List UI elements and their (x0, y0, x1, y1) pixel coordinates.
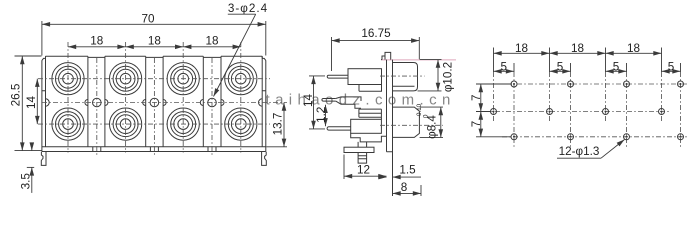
side view foot crossbar (344, 147, 374, 152)
pcb hole r1c1 (511, 81, 517, 87)
pcb hole r1c3 (624, 81, 630, 87)
dimension 12 (344, 155, 387, 180)
pcb centerlines (484, 72, 689, 148)
jack B4 row2 col4 (225, 108, 257, 140)
dimension phi10.2 (418, 60, 442, 91)
dimension phi8.4 (420, 107, 443, 137)
svg-text:18: 18 (148, 35, 161, 48)
dimension 13.7 (266, 103, 287, 147)
jack B2 row2 col2 (110, 108, 142, 140)
svg-text:18: 18 (205, 35, 218, 48)
pcb hole r2c3 (603, 109, 609, 115)
svg-text:14: 14 (25, 96, 38, 110)
svg-text:12: 12 (357, 164, 370, 177)
dimension 1.5 (381, 176, 422, 178)
centerlines front view (38, 42, 287, 157)
pink watermark rule (382, 59, 457, 61)
side view body steps C D E (359, 109, 382, 119)
dimension 3.5 (27, 143, 34, 193)
dimension 70 (42, 21, 266, 56)
side view row2 block F (351, 119, 382, 133)
svg-text:5: 5 (557, 60, 564, 73)
svg-text:14: 14 (302, 94, 315, 108)
side view barrel bottom row2 (393, 107, 420, 137)
svg-text:16.75: 16.75 (361, 27, 391, 40)
jack A4 row1 col4 (225, 63, 257, 95)
svg-text:5: 5 (668, 60, 675, 73)
front view right foot (262, 152, 267, 166)
pcb dimension 18 x3 (494, 52, 662, 54)
mounting hole H1 (93, 98, 102, 107)
pcb hole r2c4 (659, 109, 665, 115)
svg-text:1.5: 1.5 (399, 164, 416, 177)
svg-text:1.2: 1.2 (315, 107, 328, 123)
pcb extension lines (476, 48, 681, 137)
svg-text:18: 18 (90, 35, 103, 48)
svg-text:3-φ2.4: 3-φ2.4 (228, 2, 268, 15)
svg-text:5: 5 (613, 60, 620, 73)
svg-text:26.5: 26.5 (10, 83, 23, 106)
side lugs (46, 99, 263, 106)
side view body step B (359, 85, 382, 92)
side view flange top tabs (381, 52, 391, 59)
dimension 1.2 (325, 105, 327, 127)
pcb hole r2c1 (491, 109, 497, 115)
dimension 26.5 (15, 56, 43, 151)
side view pin1 row1 center pin (327, 75, 348, 78)
pcb hole r3c4 (678, 134, 684, 140)
front view left foot (41, 152, 46, 166)
pcb hole r1c2 (568, 81, 574, 87)
mounting hole H3 (208, 98, 217, 107)
side view axes (380, 76, 443, 125)
side view flange (387, 60, 393, 196)
jack A2 row1 col2 (110, 63, 142, 95)
pcb hole r3c1 (511, 134, 517, 140)
dimension 18 x3 front (68, 46, 241, 48)
side view pin3 row2 pin (327, 127, 351, 130)
pcb dimension 7 x2 (480, 84, 482, 137)
side view barrel top row1 (393, 63, 418, 91)
mounting hole H2 (150, 98, 159, 107)
side view bottom tab (358, 142, 367, 163)
svg-text:8: 8 (401, 181, 408, 194)
svg-text:5: 5 (501, 60, 508, 73)
svg-text:0: 0 (422, 114, 429, 118)
svg-text:3.5: 3.5 (19, 173, 32, 190)
pcb hole r1c4 (678, 81, 684, 87)
pcb hole r3c3 (624, 134, 630, 140)
svg-text:18: 18 (627, 42, 640, 55)
svg-text:13.7: 13.7 (272, 113, 285, 136)
pcb hole r3c2 (568, 134, 574, 140)
front view body outline (42, 56, 266, 151)
jack B1 row2 col1 (52, 108, 84, 140)
jack A3 row1 col3 (167, 63, 199, 95)
pcb hole r2c2 (547, 109, 553, 115)
svg-text:12-φ1.3: 12-φ1.3 (559, 145, 600, 158)
svg-text:7: 7 (470, 121, 483, 128)
svg-text:18: 18 (515, 42, 528, 55)
jack B3 row2 col3 (167, 108, 199, 140)
dimension 14 side (309, 76, 325, 129)
svg-text:φ10.2: φ10.2 (442, 62, 455, 92)
side view body step G (351, 133, 387, 142)
svg-text:70: 70 (141, 13, 155, 26)
dimension 8 (393, 185, 422, 196)
dimension 16.75 (332, 37, 420, 71)
front view base bridge tabs (93, 147, 216, 152)
pcb dimension 5 x4 (494, 70, 681, 72)
svg-text:7: 7 (470, 94, 483, 101)
svg-text:-0.10: -0.10 (416, 103, 423, 118)
svg-text:18: 18 (571, 42, 584, 55)
side view pin2 blade (322, 99, 336, 102)
dimension 14 front (36, 79, 38, 124)
jack A1 row1 col1 (52, 63, 84, 95)
